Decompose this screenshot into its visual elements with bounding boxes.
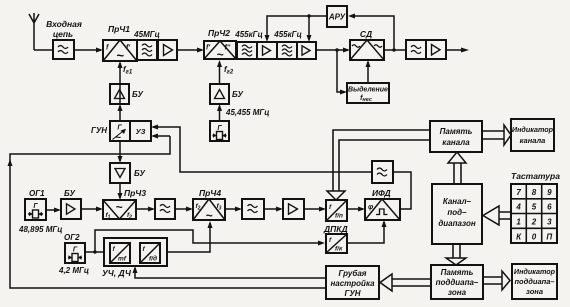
svg-text:настройка: настройка <box>330 279 375 288</box>
svg-text:П: П <box>546 232 552 241</box>
svg-text:ГУН: ГУН <box>91 126 107 135</box>
synchronous detector СД <box>350 29 384 60</box>
wire amp to divider <box>304 207 326 212</box>
wire mixer3 to filter <box>136 207 155 212</box>
svg-text:УЗ: УЗ <box>136 127 146 136</box>
svg-text:АРУ: АРУ <box>328 13 346 22</box>
svg-text:45,455 МГц: 45,455 МГц <box>225 108 269 117</box>
wire to mixer1 <box>74 48 103 53</box>
svg-text:ИФД: ИФД <box>372 188 391 198</box>
output amplifier A4 <box>426 40 446 59</box>
svg-text:Индикатор: Индикатор <box>514 267 556 276</box>
svg-text:fнес: fнес <box>360 95 372 103</box>
wire amp3 to SD with junction <box>316 48 350 53</box>
svg-text:БУ: БУ <box>134 169 145 178</box>
svg-text:455кГц: 455кГц <box>273 30 301 39</box>
svg-text:зона: зона <box>526 287 543 296</box>
amplifier A1 <box>158 40 177 60</box>
buffer БУ (down triangle) U4 <box>110 163 145 183</box>
divider f-f/d <box>140 243 160 263</box>
svg-text:f': f' <box>206 45 210 52</box>
LO chain for mixer1: fг1 label <box>123 65 133 76</box>
wire multiplier unit to mixer4 LO <box>167 221 213 252</box>
svg-text:диапазон: диапазон <box>438 219 475 228</box>
output filter F4 <box>406 40 426 59</box>
wire buffer to mixer3 <box>81 207 103 212</box>
svg-text:Грубая: Грубая <box>338 269 366 278</box>
buffer БУ (up triangle) U3 <box>110 84 143 104</box>
antenna <box>29 13 39 50</box>
svg-text:Выделение: Выделение <box>348 86 388 94</box>
svg-text:f'': f'' <box>225 45 231 52</box>
svg-text:6: 6 <box>547 203 552 212</box>
wire ОГ1 to buffer <box>46 208 61 213</box>
filter F5 <box>155 199 175 219</box>
svg-text:f': f' <box>126 45 130 52</box>
svg-text:СД: СД <box>360 29 372 39</box>
AGC wire left with drops to amps <box>265 14 328 42</box>
wire ОГ2 to multiplier box with junction <box>85 250 104 253</box>
crystal oscillator Г (45.455 MHz) <box>210 121 229 141</box>
svg-text:ГУН: ГУН <box>344 289 360 298</box>
multiplier-divider unit УЧ-ДЧ outer box <box>102 238 167 278</box>
svg-text:зона: зона <box>448 288 467 297</box>
channel indicator block (Индикатор канала) <box>511 119 554 151</box>
wire junction down to carrier extraction <box>337 50 347 95</box>
svg-text:поддиапа–: поддиапа– <box>514 277 554 286</box>
svg-text:Память: Память <box>440 127 473 136</box>
coarse VCO tuning block (Грубая настройка ГУН) <box>326 266 379 299</box>
svg-text:ПрЧ1: ПрЧ1 <box>108 24 130 34</box>
svg-text:f/к: f/к <box>335 246 343 253</box>
svg-text:4: 4 <box>515 203 521 212</box>
wire crystal osc to buffer3 <box>217 104 222 121</box>
wire filter to amp <box>264 207 283 212</box>
wire reference divider to phase detector bottom <box>347 220 387 243</box>
svg-text:5: 5 <box>532 203 537 212</box>
bus channel memory down to variable divider <box>327 130 430 200</box>
svg-text:Канал–: Канал– <box>443 197 472 206</box>
svg-text:под–: под– <box>447 208 467 217</box>
svg-text:4,2 МГц: 4,2 МГц <box>58 266 89 275</box>
control element УЗ <box>130 121 151 141</box>
svg-text:0: 0 <box>532 232 537 241</box>
control line loop filter to УЗ upper input <box>151 125 372 173</box>
svg-text:455кГц: 455кГц <box>234 30 262 39</box>
carrier extraction block (Выделение fнес) <box>347 83 389 103</box>
amplifier A2 <box>257 42 277 59</box>
wire VCO down to buffer2 <box>118 141 123 163</box>
wire VCO to buffer <box>118 104 123 121</box>
svg-text:48,895 МГц: 48,895 МГц <box>18 225 62 234</box>
AGC block АРУ <box>327 6 347 27</box>
VCO ГУН <box>91 121 130 144</box>
wire phase detector out to loop filter <box>393 172 411 209</box>
bypass wire ОГ2 to reference divider <box>95 230 325 252</box>
mixer ПрЧ3 U6 <box>103 188 146 221</box>
bus subband memory to coarse tuning <box>380 274 431 291</box>
amplifier A3 <box>297 42 316 59</box>
buffer БУ A5 <box>61 189 81 219</box>
pulse phase detector ИФД <box>365 188 400 220</box>
svg-text:1: 1 <box>516 218 521 227</box>
svg-text:ДПКД: ДПКД <box>323 224 348 234</box>
svg-text:цепь: цепь <box>53 29 73 39</box>
svg-text:φ: φ <box>368 202 374 211</box>
reference oscillator ОГ2 <box>58 233 89 275</box>
wire buffer3 to mixer2 <box>217 60 222 84</box>
wire amp1 to mixer2 <box>177 48 204 53</box>
mixer ПрЧ4 U7 <box>193 188 225 223</box>
svg-text:канала: канала <box>442 138 470 147</box>
svg-text:ОГ2: ОГ2 <box>64 233 80 242</box>
bus keyboard to channel-subband <box>483 206 511 225</box>
variable divider 1/f-n (ДПКД upper) <box>326 200 347 221</box>
reference oscillator ОГ1 <box>18 189 62 234</box>
bus subband memory to subband indicator <box>483 271 510 290</box>
svg-text:f/д: f/д <box>149 255 157 263</box>
svg-text:mf: mf <box>118 256 127 263</box>
svg-text:ПрЧ4: ПрЧ4 <box>199 188 221 198</box>
svg-text:f/n: f/n <box>335 213 343 220</box>
svg-text:Г: Г <box>33 203 38 210</box>
svg-text:7: 7 <box>516 188 521 197</box>
channel memory block (Память канала) <box>430 121 482 152</box>
wire filter to mixer4 <box>175 207 193 212</box>
LO chain for mixer2: fг2 label <box>224 65 234 76</box>
mixer ПрЧ1 U1 <box>103 24 137 63</box>
subband memory block (Память поддиапазона) <box>431 265 483 299</box>
multiplier f-mf <box>110 243 130 263</box>
wire SD to output filter with junction <box>384 48 406 51</box>
svg-text:канала: канала <box>520 136 546 145</box>
svg-text:ПрЧ2: ПрЧ2 <box>208 28 230 38</box>
keyboard grid <box>511 184 557 243</box>
wire antenna to input circuit <box>34 49 53 51</box>
svg-text:2: 2 <box>531 218 537 227</box>
svg-text:Тастатура: Тастатура <box>511 171 560 181</box>
svg-text:Г: Г <box>73 247 78 254</box>
svg-text:~: ~ <box>216 48 223 62</box>
AGC feedback wire from SD output <box>348 14 394 51</box>
bus channel-subband up to channel memory <box>448 152 466 184</box>
svg-text:УЧ, ДЧ: УЧ, ДЧ <box>102 268 132 278</box>
bus channel memory to channel indicator <box>482 125 511 145</box>
svg-text:9: 9 <box>547 188 552 197</box>
svg-text:~: ~ <box>115 200 122 214</box>
svg-text:БУ: БУ <box>232 90 243 99</box>
svg-text:БУ: БУ <box>64 189 75 198</box>
wire divider to phase detector <box>347 207 365 212</box>
buffer БУ (up triangle) U5 <box>210 84 243 104</box>
wire mixer4 to filter <box>225 207 242 212</box>
svg-text:ОГ1: ОГ1 <box>29 189 45 198</box>
filter 45MHz F1 <box>133 30 160 60</box>
wire VCO buffer to mixer1 <box>118 61 123 104</box>
bus channel-subband down to subband memory <box>446 244 466 265</box>
svg-text:ПрЧ3: ПрЧ3 <box>124 188 146 198</box>
svg-text:~: ~ <box>116 48 124 63</box>
svg-text:~: ~ <box>205 209 212 223</box>
filter 455kHz F3 <box>273 30 301 59</box>
svg-text:Входная: Входная <box>46 19 82 29</box>
wire buffer2 down to mixer3 <box>118 183 123 200</box>
svg-text:Индикатор: Индикатор <box>512 125 554 134</box>
mixer ПрЧ2 U2 <box>204 28 236 62</box>
svg-text:Память: Память <box>441 268 474 277</box>
loop filter F7 <box>372 161 393 183</box>
output arrow <box>446 48 469 53</box>
svg-text:45МГц: 45МГц <box>133 30 160 39</box>
svg-text:3: 3 <box>547 218 552 227</box>
reference divider 1/f-k (ДПКД lower) <box>326 234 347 253</box>
input circuit block (Входная цепь) <box>46 19 82 59</box>
amplifier A6 <box>283 199 304 219</box>
filter 455kHz F2 <box>234 30 262 59</box>
svg-text:поддиапа–: поддиапа– <box>436 278 479 287</box>
subband indicator block (Индикатор поддиапазона) <box>512 264 557 299</box>
filter F6 <box>242 199 264 219</box>
svg-text:8: 8 <box>532 188 537 197</box>
channel-subband block (Канал-под-диапазон) <box>432 184 482 244</box>
svg-text:БУ: БУ <box>132 90 143 99</box>
wire coarse tuning to multiplier unit bottom <box>133 266 327 278</box>
coarse tune line to УЗ lower input <box>8 134 327 289</box>
wire carrier extraction to SD bottom <box>366 60 371 83</box>
